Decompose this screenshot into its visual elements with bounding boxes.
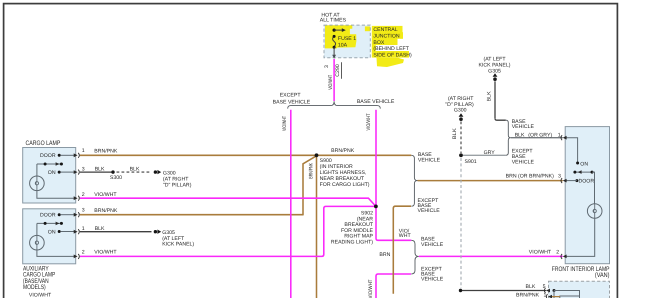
svg-text:5: 5 xyxy=(543,284,546,290)
svg-text:VEHICLE: VEHICLE xyxy=(512,124,534,129)
svg-text:BRN/PNK: BRN/PNK xyxy=(94,208,117,214)
svg-text:VIO/WHT: VIO/WHT xyxy=(29,292,52,298)
svg-text:G305: G305 xyxy=(162,230,175,236)
svg-text:VEHICLE: VEHICLE xyxy=(418,208,440,214)
svg-text:BLK: BLK xyxy=(95,167,105,173)
svg-text:BOX: BOX xyxy=(373,40,384,46)
svg-text:VIO/WHT: VIO/WHT xyxy=(94,249,117,255)
svg-text:GRY: GRY xyxy=(484,150,495,156)
svg-text:BASE: BASE xyxy=(512,154,526,160)
svg-text:ON: ON xyxy=(48,170,56,176)
svg-text:BRN/PNK: BRN/PNK xyxy=(308,163,314,179)
svg-text:S900: S900 xyxy=(320,158,332,164)
svg-text:VIO/WHT: VIO/WHT xyxy=(328,75,334,90)
svg-text:DOOR: DOOR xyxy=(40,213,56,219)
svg-text:VEHICLE: VEHICLE xyxy=(421,276,443,282)
svg-text:2: 2 xyxy=(82,249,85,255)
svg-text:3: 3 xyxy=(82,167,85,173)
svg-text:G300: G300 xyxy=(454,108,467,114)
svg-text:BLK: BLK xyxy=(526,284,536,290)
svg-text:BLK: BLK xyxy=(95,226,105,232)
svg-text:BRN/PNK: BRN/PNK xyxy=(331,148,354,154)
svg-text:BASE: BASE xyxy=(421,236,435,242)
svg-text:DOOR: DOOR xyxy=(579,179,595,185)
svg-text:BREAKOUT: BREAKOUT xyxy=(344,222,373,228)
svg-text:1: 1 xyxy=(82,148,85,154)
svg-text:EXCEPT: EXCEPT xyxy=(512,149,533,155)
svg-text:JUNCTION: JUNCTION xyxy=(373,34,399,40)
svg-text:KICK PANEL): KICK PANEL) xyxy=(162,241,194,247)
svg-text:VIO/WHT: VIO/WHT xyxy=(366,113,372,130)
svg-text:FUSE 1: FUSE 1 xyxy=(338,36,356,42)
svg-text:"D" PILLAR): "D" PILLAR) xyxy=(163,182,192,188)
svg-text:VIO/WHT: VIO/WHT xyxy=(94,192,117,198)
svg-text:ON: ON xyxy=(580,162,588,168)
svg-text:EXCEPT: EXCEPT xyxy=(280,93,301,99)
svg-text:VEHICLE: VEHICLE xyxy=(418,158,440,164)
svg-text:RIGHT MAP: RIGHT MAP xyxy=(344,234,373,240)
svg-text:MODELS): MODELS) xyxy=(23,283,46,291)
svg-text:(OR GRY): (OR GRY) xyxy=(528,133,552,139)
svg-text:READING LIGHT): READING LIGHT) xyxy=(331,240,373,246)
svg-text:1: 1 xyxy=(558,133,561,139)
svg-text:VEHICLE: VEHICLE xyxy=(421,242,443,248)
svg-text:G300: G300 xyxy=(163,170,176,176)
svg-text:BASE: BASE xyxy=(418,152,432,158)
svg-text:2: 2 xyxy=(82,192,85,198)
svg-text:(BEHIND LEFT: (BEHIND LEFT xyxy=(373,46,409,52)
svg-text:(AT RIGHT: (AT RIGHT xyxy=(163,176,189,182)
svg-text:1: 1 xyxy=(544,292,547,298)
svg-text:10A: 10A xyxy=(338,42,347,48)
svg-text:3: 3 xyxy=(324,65,330,68)
svg-text:DOOR: DOOR xyxy=(40,153,56,159)
svg-text:(IN INTERIOR: (IN INTERIOR xyxy=(320,164,353,170)
svg-text:3: 3 xyxy=(558,174,561,180)
svg-text:BRN/PNK: BRN/PNK xyxy=(516,292,539,298)
svg-text:FOR MIDDLE: FOR MIDDLE xyxy=(341,228,373,234)
svg-text:S901: S901 xyxy=(465,159,477,165)
svg-text:ALL TIMES: ALL TIMES xyxy=(320,18,346,24)
svg-text:FOR CARGO LIGHT): FOR CARGO LIGHT) xyxy=(320,182,370,188)
svg-text:VEHICLE: VEHICLE xyxy=(512,159,534,165)
svg-text:C290: C290 xyxy=(335,64,341,77)
svg-text:(VAN): (VAN) xyxy=(595,271,610,279)
svg-text:1: 1 xyxy=(82,226,85,232)
svg-text:S300: S300 xyxy=(110,175,122,181)
svg-text:VIO/WHT: VIO/WHT xyxy=(282,116,288,131)
svg-text:BLK: BLK xyxy=(515,133,525,139)
svg-text:(NEAR: (NEAR xyxy=(357,216,373,222)
svg-text:BRN/PNK: BRN/PNK xyxy=(94,148,117,154)
svg-text:NEAR BREAKOUT: NEAR BREAKOUT xyxy=(320,176,365,182)
svg-text:S902: S902 xyxy=(361,211,373,217)
svg-text:"D" PILLAR): "D" PILLAR) xyxy=(445,102,474,108)
svg-text:BRN: BRN xyxy=(379,252,390,258)
svg-text:BASE VEHICLE: BASE VEHICLE xyxy=(273,99,311,105)
svg-text:CARGO LAMP: CARGO LAMP xyxy=(26,139,61,147)
svg-text:BLK: BLK xyxy=(452,128,458,139)
svg-text:SIDE OF DASH): SIDE OF DASH) xyxy=(373,52,411,58)
svg-text:VIO/WHT: VIO/WHT xyxy=(368,279,374,298)
svg-text:(AT RIGHT: (AT RIGHT xyxy=(448,96,474,102)
svg-text:2: 2 xyxy=(556,250,559,256)
svg-text:WHT: WHT xyxy=(399,233,411,239)
svg-text:BLK: BLK xyxy=(130,167,140,173)
svg-text:BRN (OR BRN/PNK): BRN (OR BRN/PNK) xyxy=(506,174,554,180)
svg-text:BASE VEHICLE: BASE VEHICLE xyxy=(357,99,395,105)
svg-text:(AT LEFT: (AT LEFT xyxy=(483,56,505,62)
svg-text:3: 3 xyxy=(82,208,85,214)
svg-text:(AT LEFT: (AT LEFT xyxy=(162,236,184,242)
svg-text:VIO/WHT: VIO/WHT xyxy=(529,250,552,256)
svg-text:CENTRAL: CENTRAL xyxy=(373,27,397,33)
svg-text:G305: G305 xyxy=(488,68,501,74)
svg-text:LIGHTS HARNESS,: LIGHTS HARNESS, xyxy=(320,170,367,176)
svg-text:BLK: BLK xyxy=(487,91,493,101)
svg-text:ON: ON xyxy=(48,229,56,235)
svg-text:KICK PANEL): KICK PANEL) xyxy=(479,62,511,68)
